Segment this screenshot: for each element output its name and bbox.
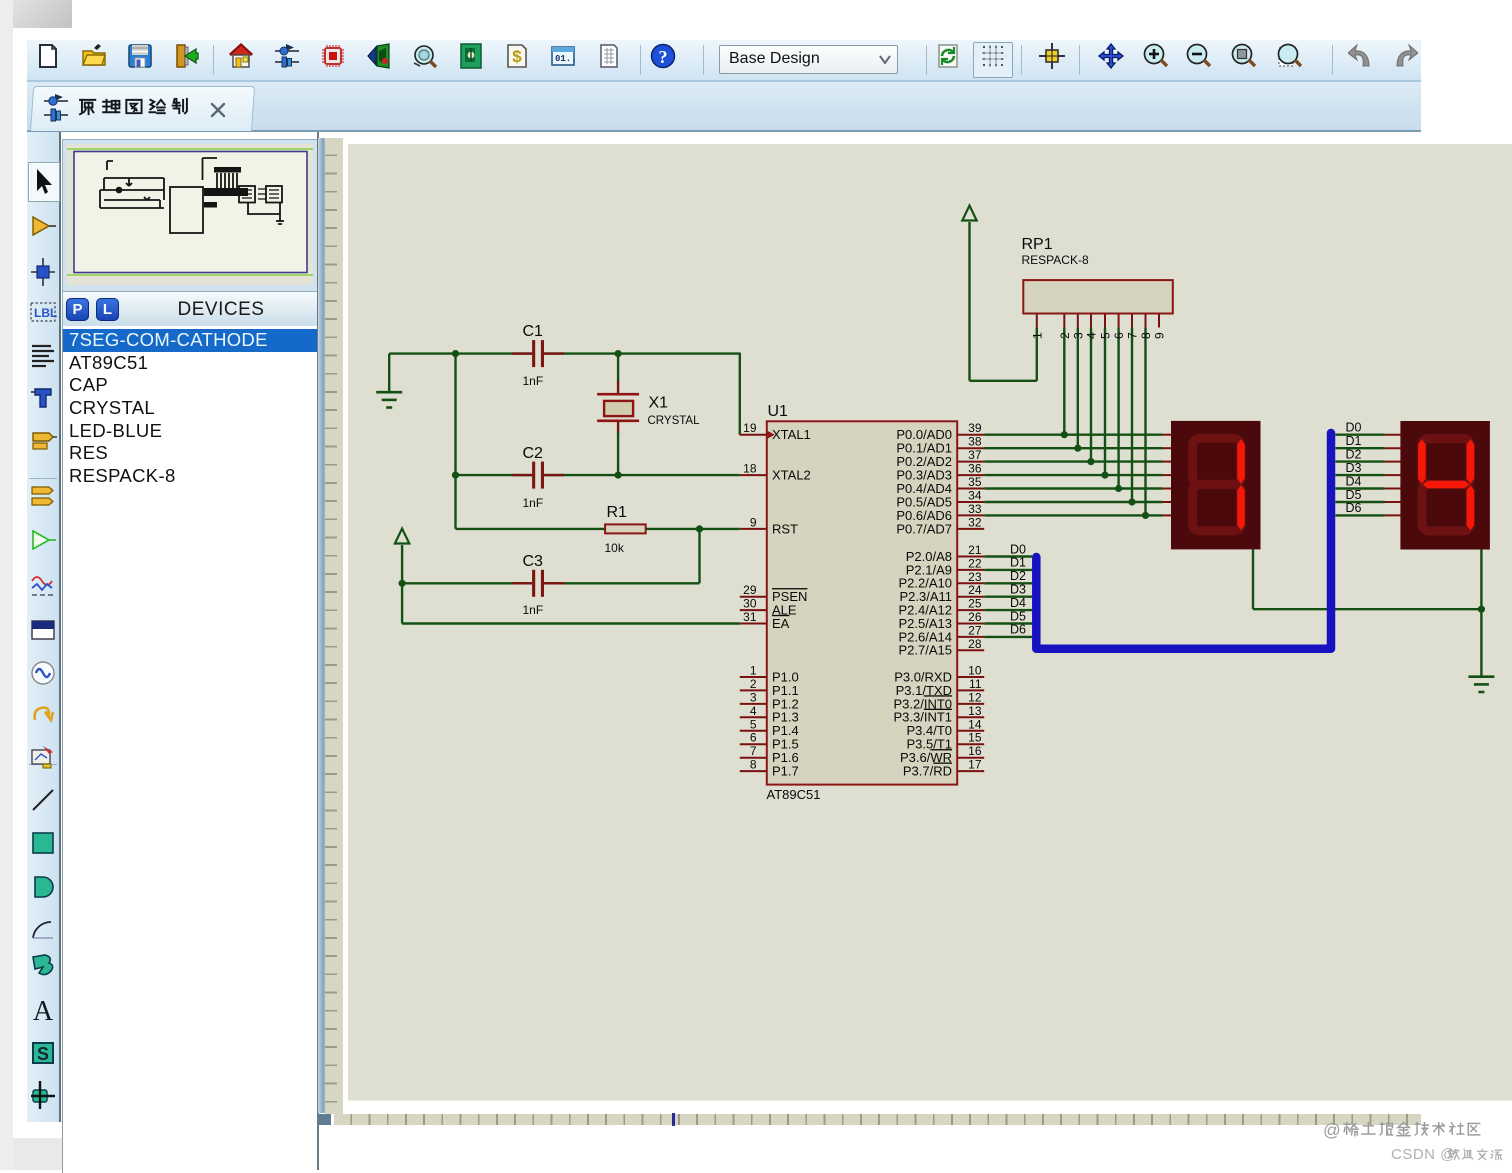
- svg-text:7: 7: [1125, 332, 1139, 339]
- svg-text:8: 8: [1139, 332, 1153, 339]
- wire bus D6 to DS2 segment: [1335, 514, 1384, 516]
- svg-text:16: 16: [968, 744, 982, 758]
- ground: [376, 392, 402, 407]
- svg-text:D2: D2: [1345, 447, 1361, 461]
- svg-text:13: 13: [968, 704, 982, 718]
- wire P2.0 net D0 to bus: [984, 555, 1032, 557]
- svg-text:C1: C1: [522, 323, 543, 340]
- wire ground stem: [388, 354, 390, 393]
- wire P2.2 net D2 to bus: [984, 582, 1032, 584]
- svg-text:P0.7/AD7: P0.7/AD7: [896, 521, 952, 536]
- wire P0.0 to DS1 segment: [984, 434, 1162, 436]
- svg-text:2: 2: [1057, 332, 1071, 339]
- U1 pin numbers (left): [743, 421, 757, 771]
- junction node XTAL1/C1: [451, 350, 458, 357]
- svg-text:30: 30: [743, 597, 757, 611]
- svg-text:D0: D0: [1345, 421, 1361, 435]
- svg-text:35: 35: [968, 475, 982, 489]
- svg-text:36: 36: [968, 462, 982, 476]
- wire P2.4 net D4 to bus: [984, 609, 1032, 611]
- svg-text:P1.7: P1.7: [772, 764, 799, 779]
- svg-text:5: 5: [1098, 332, 1112, 339]
- wire bus D5 to DS2 segment: [1335, 501, 1384, 503]
- svg-text:4: 4: [1084, 332, 1098, 339]
- svg-text:18: 18: [743, 462, 757, 476]
- junction RST node: [695, 525, 702, 532]
- power terminal VCC (left): [394, 529, 408, 544]
- wire bus D1 to DS2 segment: [1335, 447, 1384, 449]
- svg-text:D1: D1: [1010, 556, 1026, 570]
- svg-text:XTAL1: XTAL1: [772, 427, 811, 442]
- svg-text:R1: R1: [606, 504, 627, 521]
- capacitor C1: [512, 340, 564, 367]
- capacitor C2: [512, 462, 564, 489]
- svg-text:8: 8: [749, 758, 756, 772]
- wire P0.1 to DS1 segment: [984, 447, 1162, 449]
- svg-text:D4: D4: [1345, 474, 1361, 488]
- wire DS1 common to ground node: [1253, 608, 1481, 610]
- svg-text:34: 34: [968, 489, 982, 503]
- wire P2.6 net D6 to bus: [984, 636, 1032, 638]
- U1 pin names (left): [772, 427, 811, 778]
- junction X1/XTAL2 node: [614, 472, 621, 479]
- svg-text:27: 27: [968, 623, 982, 637]
- svg-text:17: 17: [968, 758, 982, 772]
- wire X1 bottom to XTAL2 net: [616, 433, 618, 476]
- svg-text:AT89C51: AT89C51: [766, 787, 820, 802]
- svg-text:1: 1: [1030, 332, 1044, 339]
- svg-text:C2: C2: [522, 445, 543, 462]
- wire C1 right plate to corner: [544, 352, 740, 354]
- wire P0.4 to DS1 segment: [984, 487, 1162, 489]
- junction RP1 pin 7 / P0.5: [1128, 498, 1135, 505]
- wire RP1 pin 3 to P0.1 net: [1076, 328, 1078, 449]
- svg-text:28: 28: [968, 637, 982, 651]
- svg-text:D0: D0: [1010, 542, 1026, 556]
- junction RP1 pin 2 / P0.0: [1060, 431, 1067, 438]
- wire P0.6 to DS1 segment: [984, 514, 1162, 516]
- wire P0.2 to DS1 segment: [984, 460, 1162, 462]
- wire to R1 left: [455, 528, 605, 530]
- svg-text:14: 14: [968, 717, 982, 731]
- resistor R1: [605, 524, 646, 533]
- ic U1 AT89C51 body: [766, 421, 956, 784]
- svg-text:4: 4: [749, 704, 756, 718]
- svg-text:19: 19: [743, 421, 757, 435]
- wire XTAL1 net, gnd to C1 left plate: [389, 352, 532, 354]
- svg-text:25: 25: [968, 597, 982, 611]
- wire RP1 pin 8 to P0.6 net: [1144, 328, 1146, 516]
- svg-text:39: 39: [968, 421, 982, 435]
- wire RP1 pin 2 to P0.0 net: [1063, 328, 1065, 435]
- junction RP1 pin 6 / P0.4: [1115, 485, 1122, 492]
- wire up to RP1 pin 1: [1035, 328, 1037, 381]
- wire P0.5 to DS1 segment: [984, 501, 1162, 503]
- svg-text:?: ?: [659, 47, 668, 67]
- wire RP1 pin 4 to P0.2 net: [1089, 328, 1091, 462]
- wire bus D4 to DS2 segment: [1335, 487, 1384, 489]
- svg-text:P2.7/A15: P2.7/A15: [898, 643, 952, 658]
- svg-text:LBL: LBL: [34, 306, 57, 320]
- wire bus D2 to DS2 segment: [1335, 460, 1384, 462]
- svg-text:9: 9: [749, 515, 756, 529]
- svg-text:23: 23: [968, 570, 982, 584]
- U1 pin names (right): [893, 427, 952, 778]
- X1 top pin stub: [616, 381, 618, 394]
- wire to U1 pin 31 EA: [402, 622, 740, 624]
- junction display commons: [1477, 606, 1484, 613]
- svg-text:12: 12: [968, 690, 982, 704]
- svg-text:1: 1: [749, 664, 756, 678]
- svg-text:$: $: [512, 47, 522, 66]
- ground (displays): [1468, 677, 1494, 692]
- X1 bottom pin stub: [616, 421, 618, 434]
- wire DS2 common to ground: [1480, 549, 1482, 676]
- wire VCC horizontal to RP1 pin 1: [969, 380, 1036, 382]
- svg-text:XTAL2: XTAL2: [772, 468, 811, 483]
- svg-text:1nF: 1nF: [522, 603, 543, 617]
- svg-text:D3: D3: [1345, 461, 1361, 475]
- svg-text:D5: D5: [1345, 488, 1361, 502]
- wire bus D0 to DS2 segment: [1335, 434, 1384, 436]
- power terminal VCC (RP1): [962, 206, 976, 221]
- wire DS1 common down: [1251, 549, 1253, 609]
- svg-text:RESPACK-8: RESPACK-8: [1021, 253, 1088, 267]
- 7-segment display DS1 (digit 1): [1171, 421, 1261, 550]
- svg-text:6: 6: [1112, 332, 1126, 339]
- svg-text:31: 31: [743, 610, 757, 624]
- 7-segment display DS2 (digit 4): [1400, 421, 1490, 550]
- RP1 pin stubs: [1036, 314, 1158, 328]
- bus D0-D6 (blue): [1036, 433, 1331, 649]
- capacitor C3: [512, 570, 564, 597]
- wire P2.1 net D1 to bus: [984, 569, 1032, 571]
- DS1 pin stubs: [1162, 435, 1171, 516]
- wire C2 right plate to U1 pin 18: [544, 474, 740, 476]
- wire RP1 pin 6 to P0.4 net: [1117, 328, 1119, 489]
- svg-text:2: 2: [749, 677, 756, 691]
- svg-text:6: 6: [749, 731, 756, 745]
- svg-text:S: S: [37, 1044, 49, 1064]
- wire bus D3 to DS2 segment: [1335, 474, 1384, 476]
- DS2 pin stubs: [1384, 435, 1401, 516]
- wire P2.5 net D5 to bus: [984, 622, 1032, 624]
- svg-text:P3.7/RD: P3.7/RD: [902, 764, 951, 779]
- svg-text:CRYSTAL: CRYSTAL: [647, 415, 700, 427]
- svg-text:7: 7: [749, 744, 756, 758]
- svg-text:32: 32: [968, 515, 982, 529]
- wire R1 right to U1 pin 9 RST: [645, 528, 739, 530]
- svg-text:10: 10: [968, 664, 982, 678]
- svg-text:RST: RST: [772, 521, 798, 536]
- resistor pack RP1 body: [1023, 280, 1173, 313]
- U1 pin stubs: [739, 435, 983, 771]
- svg-text:15: 15: [968, 731, 982, 745]
- svg-text:EA: EA: [772, 616, 790, 631]
- svg-text:U1: U1: [767, 403, 788, 420]
- svg-text:D1: D1: [1345, 434, 1361, 448]
- svg-text:D6: D6: [1010, 623, 1026, 637]
- junction power/C3 node: [398, 580, 405, 587]
- svg-text:37: 37: [968, 448, 982, 462]
- svg-text:A: A: [33, 996, 54, 1024]
- wire C3 right plate to vertical: [544, 582, 700, 584]
- svg-text:D6: D6: [1345, 501, 1361, 515]
- junction RP1 pin 5 / P0.3: [1101, 472, 1108, 479]
- wire down to U1 pin 19: [738, 353, 740, 435]
- junction RP1 pin 3 / P0.1: [1074, 445, 1081, 452]
- svg-text:29: 29: [743, 583, 757, 597]
- svg-text:24: 24: [968, 583, 982, 597]
- wire power node to C3 left plate: [402, 582, 532, 584]
- svg-text:01..: 01..: [555, 54, 576, 64]
- RP1 pin numbers 1-9: [1030, 332, 1166, 339]
- junction C2 left node: [451, 472, 458, 479]
- wire RST node down to C3 right: [698, 529, 700, 583]
- U1 pin numbers (right): [968, 421, 982, 771]
- svg-text:26: 26: [968, 610, 982, 624]
- svg-text:C3: C3: [522, 553, 543, 570]
- wire P0.3 to DS1 segment: [984, 474, 1162, 476]
- svg-text:11: 11: [969, 677, 982, 691]
- U1 XTAL1 clock arrow: [766, 431, 774, 439]
- svg-text:21: 21: [968, 543, 982, 557]
- wire XTAL2 net to C2 left plate: [455, 474, 532, 476]
- svg-text:38: 38: [968, 435, 982, 449]
- crystal X1: [597, 394, 639, 421]
- svg-text:D2: D2: [1010, 569, 1026, 583]
- wire to X1 top: [616, 354, 618, 382]
- wire RP1 pin 7 to P0.5 net: [1130, 328, 1132, 503]
- junction node X1 top: [614, 350, 621, 357]
- svg-text:3: 3: [1071, 332, 1085, 339]
- svg-text:X1: X1: [648, 395, 668, 412]
- svg-text:5: 5: [749, 717, 756, 731]
- svg-text:3: 3: [749, 690, 756, 704]
- svg-text:D4: D4: [1010, 596, 1026, 610]
- wire RP1 pin 5 to P0.3 net: [1103, 328, 1105, 476]
- svg-text:RP1: RP1: [1021, 236, 1052, 253]
- svg-text:33: 33: [968, 502, 982, 516]
- wire left vertical branch: [454, 354, 456, 529]
- junction RP1 pin 8 / P0.6: [1141, 512, 1148, 519]
- junction RP1 pin 4 / P0.2: [1087, 458, 1094, 465]
- svg-text:D3: D3: [1010, 583, 1026, 597]
- svg-text:10k: 10k: [604, 541, 624, 555]
- wire P2.3 net D3 to bus: [984, 596, 1032, 598]
- svg-text:D5: D5: [1010, 609, 1026, 623]
- svg-text:9: 9: [1152, 332, 1166, 339]
- wire power arrow down to EA row: [400, 545, 402, 624]
- wire VCC down: [968, 222, 970, 381]
- svg-text:22: 22: [968, 556, 982, 570]
- svg-text:1nF: 1nF: [522, 374, 543, 388]
- svg-text:1nF: 1nF: [522, 496, 543, 510]
